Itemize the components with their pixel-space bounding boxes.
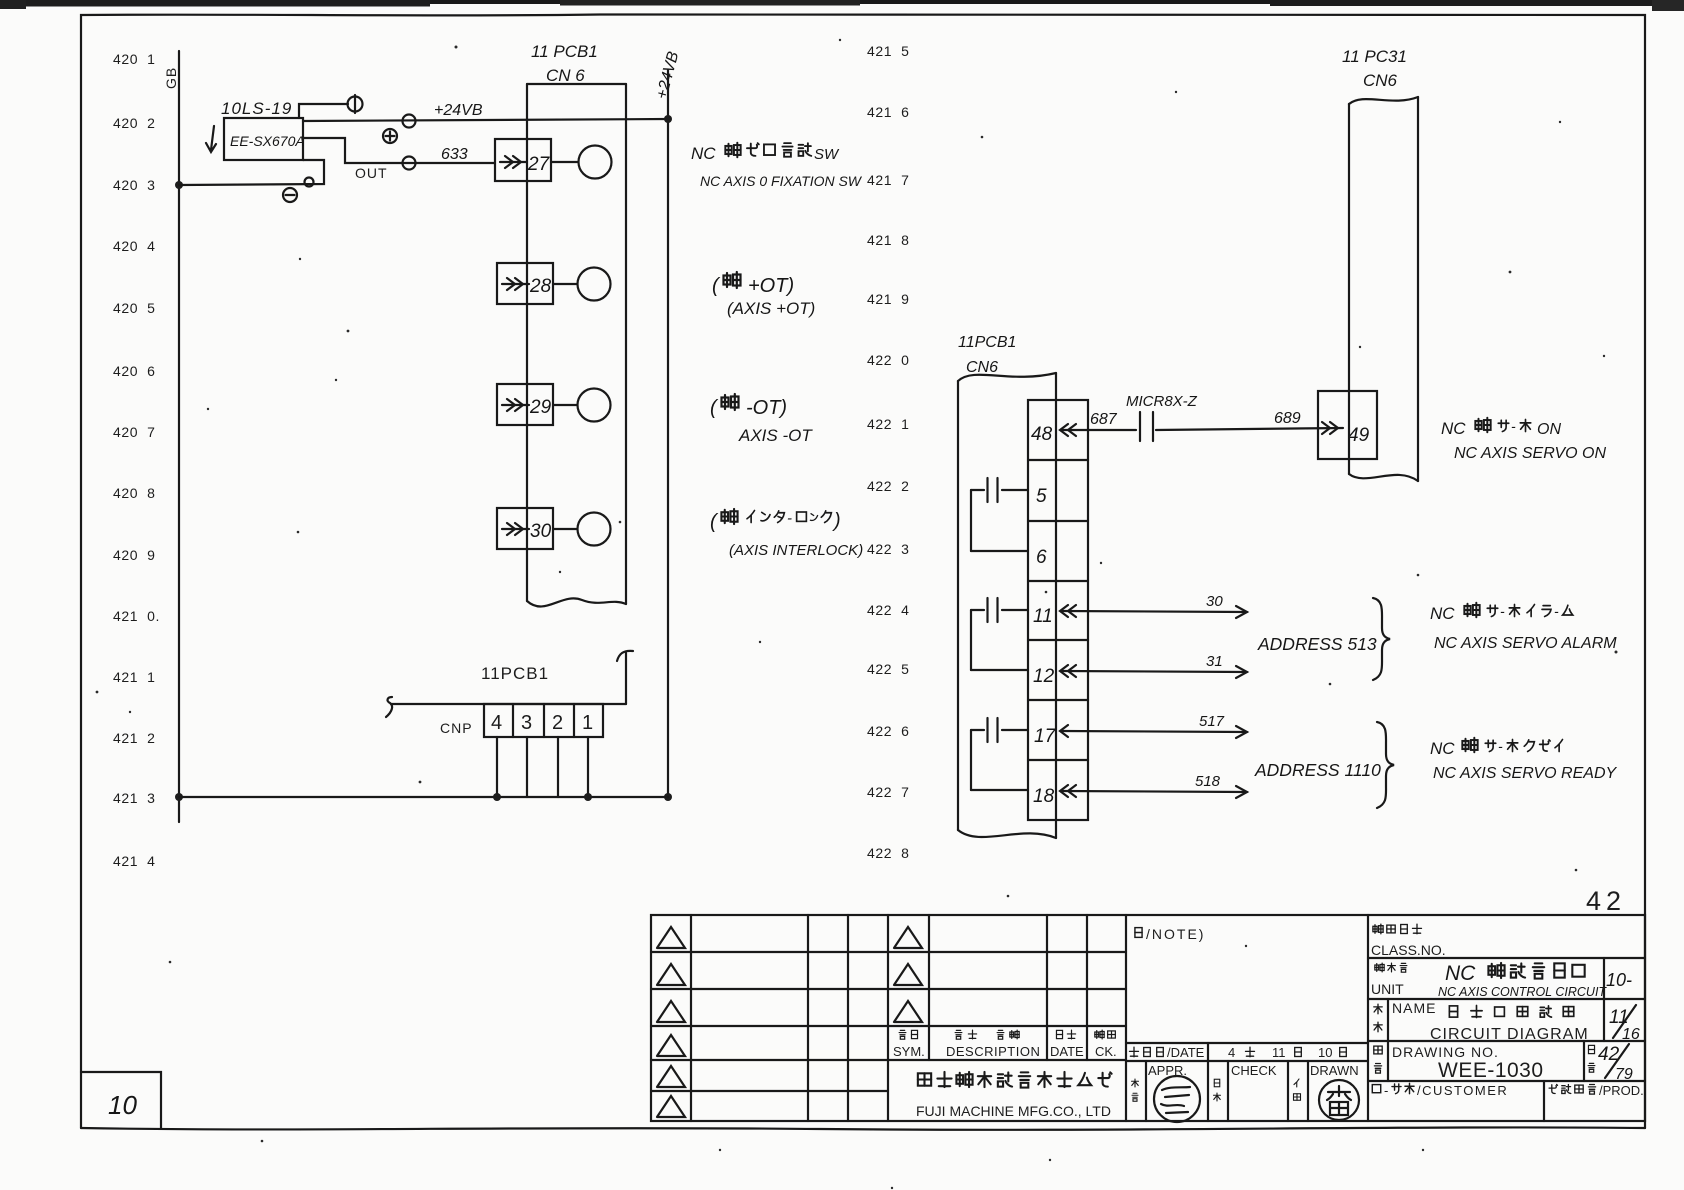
scan band top (0, 0, 1684, 11)
connector 11PCB1 CN6 strip (left) (527, 84, 626, 606)
svg-text:422 6: 422 6 (867, 723, 910, 739)
svg-text:6: 6 (1036, 547, 1047, 568)
wire CNP pin4 down (496, 737, 498, 797)
approval row (1126, 1061, 1368, 1121)
junction +24VB top (664, 115, 672, 123)
revision triangle M2 (894, 964, 922, 985)
header DATE column (1050, 1030, 1084, 1059)
wire +24VB from sensor to vertical bus (303, 119, 668, 121)
svg-text:/CUSTOMER: /CUSTOMER (1417, 1083, 1508, 1098)
svg-text:4: 4 (1228, 1045, 1235, 1060)
annotation NC axis servo alarm (jp) (1430, 603, 1573, 623)
note area label (1135, 926, 1206, 942)
junction +24VB bottom (664, 793, 672, 801)
drawing page 42/79 handwritten (1598, 1044, 1633, 1083)
svg-text:DRAWN: DRAWN (1310, 1063, 1359, 1078)
svg-text:OUT: OUT (355, 165, 388, 181)
connector 11PC31 CN6 strip (right) (1349, 97, 1418, 481)
customer row (1372, 1081, 1544, 1121)
capacitor coupling at pin 17/18 (971, 718, 1028, 790)
svg-text:421 7: 421 7 (867, 172, 910, 188)
svg-text:CN6: CN6 (1363, 71, 1398, 90)
svg-text:17: 17 (1034, 726, 1057, 747)
svg-text:420 6: 420 6 (113, 363, 156, 379)
svg-text:31: 31 (1206, 653, 1223, 670)
svg-text:GB: GB (163, 67, 179, 89)
svg-text:422 8: 422 8 (867, 845, 910, 861)
svg-text:421 3: 421 3 (113, 790, 156, 806)
junction bus pin1 (584, 793, 592, 801)
svg-text:12: 12 (1033, 666, 1055, 687)
wire signal 689 to pin 49 (1156, 422, 1343, 434)
svg-text:420 4: 420 4 (113, 238, 156, 254)
name page 11/16 handwritten (1609, 1005, 1640, 1043)
svg-text:11: 11 (1272, 1045, 1286, 1060)
svg-text:422 5: 422 5 (867, 661, 910, 677)
revision triangle L5 (657, 1066, 685, 1087)
svg-text:421 4: 421 4 (113, 853, 156, 869)
stamp draftsman (1319, 1080, 1359, 1120)
svg-text:EE-SX670A: EE-SX670A (230, 133, 305, 149)
wire GB vertical bus (178, 51, 180, 822)
svg-text:NC: NC (1430, 739, 1455, 758)
unit row (1368, 958, 1645, 999)
svg-text:1: 1 (582, 712, 593, 734)
pin 29 box (497, 384, 553, 425)
svg-text:+OT): +OT) (748, 275, 794, 297)
brace address 1110 (1377, 722, 1394, 808)
svg-text:11 PC31: 11 PC31 (1342, 47, 1407, 66)
svg-text:NAME: NAME (1392, 1000, 1436, 1016)
svg-text:CLASS.NO.: CLASS.NO. (1371, 942, 1446, 958)
wire 4213 bus (179, 796, 668, 798)
svg-text:+24VB: +24VB (434, 102, 483, 119)
annotation (axis interlock) (jp) (710, 509, 841, 533)
svg-text:CK.: CK. (1095, 1044, 1117, 1059)
svg-text:420 1: 420 1 (113, 51, 156, 67)
svg-text:10: 10 (1318, 1045, 1332, 1060)
wire CNP pin1 down (587, 737, 589, 797)
svg-text:(: ( (712, 275, 721, 297)
revision triangle L3 (657, 1001, 685, 1022)
connector CNP pins 4 3 2 1 (484, 704, 603, 737)
wire OUT from sensor to pin 27 (303, 138, 495, 163)
wire CNP top rail with break squiggle (386, 697, 626, 717)
wire pin 48 signal 687 (1060, 424, 1136, 436)
sheet number box 10 (81, 1072, 161, 1128)
terminal circle on OUT wire (403, 157, 416, 170)
svg-text:SW: SW (814, 146, 840, 163)
label approval kanji (1132, 1079, 1139, 1101)
svg-text:420 2: 420 2 (113, 115, 156, 131)
svg-text:11: 11 (1609, 1007, 1629, 1028)
svg-text:30: 30 (530, 521, 552, 542)
svg-text:CN6: CN6 (966, 359, 998, 376)
svg-text:-: - (787, 510, 792, 527)
svg-text:DESCRIPTION: DESCRIPTION (946, 1044, 1040, 1059)
pin 29 terminal circle (578, 389, 611, 422)
annotation NC axis servo on (jp) (1441, 418, 1561, 438)
svg-text:420 7: 420 7 (113, 424, 156, 440)
wire pin 28 to circle (553, 283, 577, 285)
svg-text:DRAWING NO.: DRAWING NO. (1392, 1044, 1499, 1060)
grid line numbers left column (113, 51, 160, 869)
revision triangle L4 (657, 1035, 685, 1056)
svg-text:ADDRESS 1110: ADDRESS 1110 (1254, 760, 1381, 780)
svg-text:517: 517 (1199, 713, 1225, 730)
svg-text:(AXIS +OT): (AXIS +OT) (727, 299, 815, 318)
brace address 513 (1373, 598, 1390, 680)
wire sensor top to light symbol (299, 104, 348, 118)
svg-text:633: 633 (441, 146, 468, 163)
sensor EE-SX670A box (224, 118, 305, 160)
wire pin 29 to circle (553, 404, 577, 406)
svg-text:420 8: 420 8 (113, 485, 156, 501)
svg-text:16: 16 (1622, 1026, 1640, 1043)
wire pin 11 address 30 (1060, 605, 1247, 618)
label check kanji (1214, 1079, 1221, 1101)
svg-text:NC AXIS SERVO ON: NC AXIS SERVO ON (1454, 445, 1606, 462)
plus mark symbol (383, 129, 397, 143)
annotation (axis +OT) (jp) (712, 272, 794, 297)
wire pin 17 address 517 (1060, 725, 1247, 738)
svg-text:WEE-1030: WEE-1030 (1438, 1059, 1544, 1082)
wire CNP pin2 down (557, 737, 559, 797)
svg-text:420 9: 420 9 (113, 547, 156, 563)
svg-text:CHECK: CHECK (1231, 1063, 1277, 1078)
svg-text:2: 2 (552, 712, 563, 734)
svg-text:422 2: 422 2 (867, 478, 910, 494)
svg-text:NC: NC (1430, 604, 1455, 623)
pin 27 box (495, 139, 551, 181)
drawing no row (1368, 1041, 1645, 1082)
svg-text:27: 27 (527, 154, 551, 175)
title block frame (651, 915, 1645, 1121)
svg-text:AXIS -OT: AXIS -OT (738, 426, 813, 445)
date row (1126, 1043, 1368, 1061)
svg-text:421 9: 421 9 (867, 291, 910, 307)
svg-text:10LS-19: 10LS-19 (221, 99, 292, 118)
svg-text:49: 49 (1348, 425, 1370, 446)
svg-text:421 6: 421 6 (867, 104, 910, 120)
svg-text:(AXIS INTERLOCK): (AXIS INTERLOCK) (729, 542, 863, 559)
svg-text:CIRCUIT DIAGRAM: CIRCUIT DIAGRAM (1430, 1026, 1589, 1043)
grid line numbers middle column (867, 43, 910, 861)
svg-text:11 PCB1: 11 PCB1 (531, 42, 598, 61)
svg-text:48: 48 (1031, 424, 1053, 445)
pin 49 box (1318, 391, 1377, 459)
svg-text:-: - (1384, 1083, 1388, 1098)
terminal circle on +24VB wire (403, 115, 416, 128)
svg-text:422 0: 422 0 (867, 352, 910, 368)
annotation (axis -OT) (jp) (710, 394, 787, 419)
annotation NC axis servo ready (jp) (1430, 738, 1563, 758)
wire CNP pin3 down (526, 737, 528, 797)
revision triangle L1 (657, 927, 685, 948)
svg-text:3: 3 (521, 712, 532, 734)
unit name handwritten NC axis control circuit (1438, 962, 1607, 999)
svg-text:422 7: 422 7 (867, 784, 910, 800)
wire sensor bottom to GB (179, 160, 324, 185)
connector 11PCB1 CN6 label (left) (531, 42, 598, 85)
svg-text:/NOTE): /NOTE) (1146, 926, 1205, 942)
svg-text:10-: 10- (1606, 970, 1632, 990)
capacitor coupling at pin 11/12 (971, 598, 1028, 670)
svg-text:-OT): -OT) (746, 397, 787, 419)
label drawn kanji (1294, 1079, 1301, 1100)
svg-text:4: 4 (491, 712, 502, 734)
svg-text:-: - (1511, 418, 1516, 434)
svg-text:/DATE: /DATE (1167, 1045, 1205, 1060)
svg-text:FUJI MACHINE MFG.CO., LTD: FUJI MACHINE MFG.CO., LTD (916, 1103, 1111, 1119)
svg-text:18: 18 (1033, 786, 1055, 807)
header DESCRIPTION column (946, 1030, 1040, 1059)
svg-text:(: ( (710, 511, 719, 533)
light-input symbol (circle with bar) (348, 95, 363, 113)
svg-text:11PCB1: 11PCB1 (958, 334, 1016, 351)
svg-text:421 5: 421 5 (867, 43, 910, 59)
svg-text:687: 687 (1090, 411, 1118, 428)
junction GB 4203 (175, 181, 183, 189)
svg-text:SYM.: SYM. (893, 1044, 925, 1059)
junction GB 4213 (175, 793, 183, 801)
junction bus pin4 (493, 793, 501, 801)
svg-text:42: 42 (1586, 886, 1626, 916)
svg-text:-: - (1498, 738, 1503, 754)
svg-text:/PROD.: /PROD. (1599, 1083, 1644, 1098)
svg-text:422 4: 422 4 (867, 602, 910, 618)
connector 11PCB1 CN6 label (middle) (958, 334, 1016, 376)
svg-text:NC: NC (691, 144, 716, 163)
svg-text:421 2: 421 2 (113, 730, 156, 746)
minus mark symbol (283, 188, 297, 202)
header SYM column (893, 1030, 925, 1059)
svg-text:420 3: 420 3 (113, 177, 156, 193)
svg-text:ADDRESS 513: ADDRESS 513 (1257, 634, 1377, 654)
svg-text:11: 11 (1033, 606, 1053, 627)
connector 11PC31 CN6 label (right) (1342, 47, 1407, 90)
capacitor coupling at pin 5/6 (971, 478, 1028, 551)
svg-text:420 5: 420 5 (113, 300, 156, 316)
pin 28 box (497, 263, 553, 304)
arrow up from CNP line (617, 651, 633, 704)
wire +24VB vertical (667, 70, 669, 797)
revision triangle M1 (894, 927, 922, 948)
prod row label (1549, 1083, 1644, 1098)
svg-text:NC AXIS 0 FIXATION SW: NC AXIS 0 FIXATION SW (700, 173, 863, 189)
svg-text:28: 28 (529, 276, 552, 297)
terminal circle on bottom wire (305, 178, 314, 187)
svg-text:CNP: CNP (440, 720, 473, 736)
revision triangle L2 (657, 964, 685, 985)
wire pin 27 to circle (551, 161, 578, 163)
stamp approver (1154, 1076, 1200, 1122)
svg-text:NC: NC (1445, 962, 1476, 985)
revision triangle L6 (657, 1096, 685, 1117)
connector pin block 48/5/6/11/12/17/18 (1028, 400, 1088, 820)
company name Fuji Machine Mfg (916, 1072, 1112, 1119)
wire pin 12 address 31 (1060, 665, 1247, 678)
connector 11PCB1 CN6 strip (middle) (958, 373, 1056, 838)
pin 27 terminal circle (579, 146, 612, 179)
svg-text:10: 10 (108, 1090, 137, 1120)
svg-text:29: 29 (529, 397, 552, 418)
annotation NC axis zero fixation sw (jp) (691, 143, 840, 163)
svg-text:422 3: 422 3 (867, 541, 910, 557)
pin 28 terminal circle (578, 268, 611, 301)
pin 30 box (497, 508, 553, 549)
svg-text:421 8: 421 8 (867, 232, 910, 248)
svg-text:(: ( (710, 397, 719, 419)
name row (1368, 999, 1645, 1081)
pin 30 terminal circle (578, 513, 611, 546)
svg-text:ON: ON (1537, 421, 1561, 438)
svg-text:NC AXIS SERVO ALARM: NC AXIS SERVO ALARM (1434, 635, 1617, 652)
svg-text:5: 5 (1036, 486, 1047, 507)
svg-text:): ) (832, 510, 841, 532)
wire pin 30 to circle (553, 528, 577, 530)
class no row (1368, 924, 1645, 958)
svg-text:689: 689 (1274, 410, 1301, 427)
svg-text:518: 518 (1195, 773, 1221, 790)
svg-text:CN 6: CN 6 (546, 66, 585, 85)
svg-text:NC AXIS CONTROL CIRCUIT: NC AXIS CONTROL CIRCUIT (1438, 985, 1607, 999)
svg-text:MICR8X-Z: MICR8X-Z (1126, 393, 1198, 410)
svg-text:NC AXIS SERVO READY: NC AXIS SERVO READY (1433, 765, 1617, 782)
svg-text:422 1: 422 1 (867, 416, 910, 432)
svg-text:DATE: DATE (1050, 1044, 1084, 1059)
wire pin 18 address 518 (1060, 785, 1247, 798)
header CK column (1095, 1030, 1117, 1059)
svg-text:79: 79 (1615, 1066, 1633, 1083)
svg-text:-: - (1500, 603, 1505, 619)
svg-text:NC: NC (1441, 419, 1466, 438)
arrow down at sensor (206, 126, 216, 152)
svg-text:421 1: 421 1 (113, 669, 156, 685)
svg-text:421 0.: 421 0. (113, 608, 160, 624)
svg-text:-: - (1554, 603, 1559, 619)
revision triangle M3 (894, 1001, 922, 1022)
svg-text:11PCB1: 11PCB1 (481, 664, 549, 683)
connector contact pair MICR8X-Z (1140, 412, 1153, 441)
svg-text:30: 30 (1206, 593, 1223, 610)
svg-text:UNIT: UNIT (1371, 981, 1404, 997)
